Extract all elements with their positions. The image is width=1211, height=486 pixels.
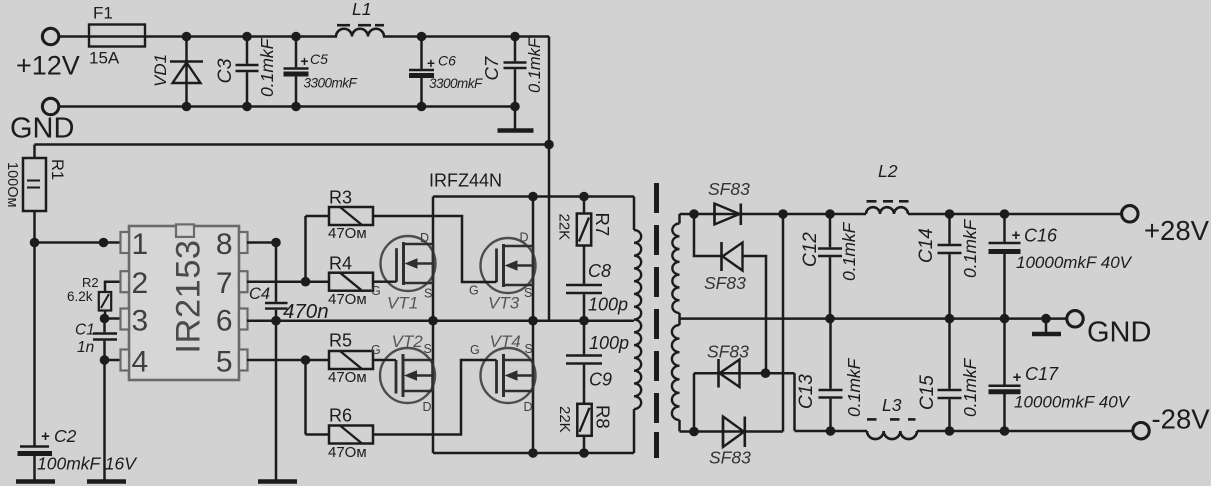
wire to R6 xyxy=(306,433,330,436)
wire R6 to VT4 gate xyxy=(373,360,484,435)
junction C7 bottom xyxy=(510,102,520,112)
wire to R5 xyxy=(306,359,330,362)
wire gate feed high xyxy=(304,216,307,282)
svg-text:C14: C14 xyxy=(916,228,937,263)
svg-text:L3: L3 xyxy=(882,395,902,415)
svg-text:3: 3 xyxy=(132,305,149,338)
ground pin4 xyxy=(87,479,126,484)
resistor R1 xyxy=(33,145,36,159)
wire R4 to VT1 gate xyxy=(373,280,382,283)
capacitor C3 xyxy=(246,37,249,64)
wire minus rectifier column xyxy=(782,214,785,432)
wire VT2 column xyxy=(432,321,435,453)
svg-text:0.1mkF: 0.1mkF xyxy=(257,37,277,97)
wire pin4 xyxy=(105,359,122,362)
junction C12 bottom xyxy=(825,314,835,324)
junction C17 bottom xyxy=(1000,426,1010,436)
svg-text:7: 7 xyxy=(216,267,233,300)
junction R7 top xyxy=(579,192,589,202)
ground under C7 xyxy=(514,107,517,130)
svg-text:C1: C1 xyxy=(75,322,95,339)
junction C5 top xyxy=(291,32,301,42)
transformer primary winding xyxy=(633,197,636,231)
transformer core xyxy=(654,183,659,213)
svg-text:100Ом: 100Ом xyxy=(4,162,20,207)
capacitor C5 xyxy=(295,37,298,68)
pin box left 2 xyxy=(121,271,130,292)
capacitor C4 xyxy=(275,243,278,302)
capacitor C1 xyxy=(103,319,106,333)
wire pin6 VS midline xyxy=(247,319,634,322)
terminal GND output xyxy=(1067,311,1083,327)
terminal -28V xyxy=(1133,423,1149,439)
wire pin2 to R2 xyxy=(105,282,121,292)
resistor R2 xyxy=(99,292,111,311)
transistor VT4 xyxy=(481,348,536,403)
pin box right 5 xyxy=(239,350,248,371)
junction feed xyxy=(544,140,554,150)
svg-text:GND: GND xyxy=(1087,317,1151,349)
junction VD1 top xyxy=(182,32,192,42)
diode SF83 D4 xyxy=(722,417,725,448)
wire pin1 xyxy=(35,241,122,244)
junction pin7 gate feed xyxy=(301,277,311,287)
svg-text:0.1mkF: 0.1mkF xyxy=(839,221,859,281)
wire GND rail xyxy=(59,105,515,108)
svg-text:D: D xyxy=(420,231,429,245)
svg-text:+: + xyxy=(427,56,435,71)
svg-text:C16: C16 xyxy=(1024,226,1058,246)
svg-text:R8: R8 xyxy=(593,405,614,429)
junction VT3 VT4 sources xyxy=(528,316,538,326)
wire R3 to VT3 gate xyxy=(373,216,486,282)
svg-text:SF83: SF83 xyxy=(704,273,746,293)
svg-text:22K: 22K xyxy=(556,406,573,433)
inductor L3 xyxy=(867,431,917,439)
svg-text:10000mkF 40V: 10000mkF 40V xyxy=(1014,393,1131,412)
svg-text:C15: C15 xyxy=(917,375,938,410)
wire +12V feed to R1 xyxy=(35,143,550,146)
wire bridge top rail xyxy=(433,195,634,198)
capacitor C6 xyxy=(420,37,423,69)
svg-text:S: S xyxy=(525,342,533,356)
junction C13 bottom xyxy=(826,426,836,436)
transistor VT1 xyxy=(381,236,436,291)
fuse F1 xyxy=(89,25,145,47)
junction stray pin1 row xyxy=(99,238,109,248)
svg-text:-28V: -28V xyxy=(1152,404,1211,435)
svg-text:1n: 1n xyxy=(77,339,94,356)
pin box right 8 xyxy=(239,232,248,253)
resistor R6 xyxy=(329,426,373,444)
capacitor C15 xyxy=(948,319,951,389)
svg-text:4: 4 xyxy=(132,346,149,379)
svg-text:IR2153: IR2153 xyxy=(170,239,208,353)
svg-text:47Ом: 47Ом xyxy=(328,225,367,242)
pin box left 4 xyxy=(121,350,130,371)
svg-text:G: G xyxy=(371,343,381,357)
junction C1 pin4 xyxy=(100,355,110,365)
svg-text:C3: C3 xyxy=(214,58,236,83)
wire +28V rail xyxy=(680,213,867,216)
wire R1 to C2 xyxy=(33,211,36,446)
wire diode D2 branch xyxy=(694,214,721,256)
junction VD1 bottom xyxy=(182,102,192,112)
capacitor C8 xyxy=(566,284,602,287)
svg-text:0.1mkF: 0.1mkF xyxy=(526,37,544,93)
svg-text:L2: L2 xyxy=(878,161,898,181)
svg-text:L1: L1 xyxy=(352,0,371,19)
svg-text:VT3: VT3 xyxy=(488,294,520,313)
svg-text:GND: GND xyxy=(10,113,74,145)
svg-text:1: 1 xyxy=(132,228,149,261)
svg-text:SF83: SF83 xyxy=(708,179,750,199)
svg-text:F1: F1 xyxy=(93,4,113,23)
junction R2 C1 xyxy=(100,314,110,324)
svg-text:+28V: +28V xyxy=(1144,215,1210,246)
svg-text:C4: C4 xyxy=(249,285,270,303)
wire D3 cathode down xyxy=(693,373,696,431)
svg-text:6.2k: 6.2k xyxy=(67,289,93,304)
junction C14 C15 xyxy=(945,314,955,324)
junction C7 top xyxy=(510,32,520,42)
resistor R5 xyxy=(329,351,373,369)
terminal +28V xyxy=(1122,206,1138,222)
wire D2 anode down xyxy=(743,256,767,373)
svg-text:VD1: VD1 xyxy=(151,54,170,87)
wire R5 to VT2 gate xyxy=(373,359,382,362)
ground output xyxy=(1041,314,1051,324)
svg-text:6: 6 xyxy=(216,305,233,338)
junction C5 bottom xyxy=(291,102,301,112)
junction rail x783 xyxy=(778,209,788,219)
capacitor C17 xyxy=(1003,319,1006,385)
capacitor C2 xyxy=(20,445,49,448)
wire pin8 xyxy=(247,241,276,244)
svg-text:SF83: SF83 xyxy=(707,342,749,362)
junction C6 top xyxy=(417,32,427,42)
svg-text:R5: R5 xyxy=(329,331,352,351)
svg-text:+: + xyxy=(41,428,50,445)
resistor R8 xyxy=(577,404,591,436)
svg-text:0.1mkF: 0.1mkF xyxy=(960,357,980,417)
inductor L1 xyxy=(337,32,383,41)
wire +12V feed down xyxy=(548,37,551,321)
junction pin5 gate feed xyxy=(301,355,311,365)
svg-text:47Ом: 47Ом xyxy=(328,444,367,461)
wire pin5 xyxy=(247,359,306,362)
wire -28V rail left segment xyxy=(680,430,784,433)
svg-text:R2: R2 xyxy=(82,275,99,290)
wire to R3 xyxy=(306,215,330,218)
wire VT4 column xyxy=(532,321,535,453)
wire to R4 xyxy=(306,280,330,283)
junction C12 top xyxy=(825,209,835,219)
svg-text:100mkF 16V: 100mkF 16V xyxy=(37,454,138,474)
svg-text:D: D xyxy=(423,400,432,414)
terminal GND input xyxy=(42,98,58,114)
ground pin6 xyxy=(258,479,297,484)
svg-text:C17: C17 xyxy=(1025,364,1059,384)
capacitor C9 xyxy=(583,321,586,355)
svg-text:C9: C9 xyxy=(589,370,612,390)
capacitor C14 xyxy=(948,214,951,244)
svg-text:VT2: VT2 xyxy=(392,332,424,351)
wire VT3 drain-source column xyxy=(532,197,535,321)
wire diode row 373 xyxy=(694,372,795,375)
junction VT3 drain xyxy=(528,192,538,202)
transistor VT3 xyxy=(481,238,536,293)
wire -28V rail right segment xyxy=(795,430,868,433)
svg-text:G: G xyxy=(371,284,381,298)
junction C16 C17 xyxy=(1000,314,1010,324)
svg-text:C6: C6 xyxy=(438,53,456,69)
transformer secondary upper winding xyxy=(678,214,681,224)
capacitor C7 xyxy=(514,37,517,62)
diode SF83 D1 xyxy=(713,204,716,225)
junction R8 bottom xyxy=(579,448,589,458)
svg-text:0.1mkF: 0.1mkF xyxy=(844,357,864,417)
svg-text:G: G xyxy=(470,343,480,357)
svg-text:+: + xyxy=(301,54,309,69)
wire GND mid rail xyxy=(680,317,1067,320)
diode VD1 xyxy=(185,37,188,107)
resistor R7 xyxy=(583,197,586,214)
svg-text:100p: 100p xyxy=(588,295,628,315)
transistor VT2 xyxy=(380,348,435,403)
svg-text:R3: R3 xyxy=(329,188,352,208)
wire pin7 xyxy=(247,280,306,283)
svg-text:C2: C2 xyxy=(54,426,77,446)
junction C4 pin6 xyxy=(271,316,281,326)
capacitor C16 xyxy=(1003,214,1006,242)
svg-text:D: D xyxy=(520,231,529,245)
diode SF83 D2 xyxy=(720,242,723,271)
resistor R4 xyxy=(329,273,373,291)
svg-text:D: D xyxy=(524,400,533,414)
svg-text:C8: C8 xyxy=(588,261,611,281)
inductor L2 xyxy=(866,207,908,214)
svg-text:R1: R1 xyxy=(48,159,66,180)
junction VT4 drain xyxy=(528,448,538,458)
svg-text:10000mkF 40V: 10000mkF 40V xyxy=(1016,253,1133,272)
svg-text:15A: 15A xyxy=(89,49,120,68)
svg-text:G: G xyxy=(469,284,479,298)
transformer secondary lower winding xyxy=(678,319,681,325)
wire gate feed low xyxy=(304,360,307,435)
junction C6 bottom xyxy=(417,102,427,112)
capacitor C13 xyxy=(829,319,832,389)
svg-text:2: 2 xyxy=(132,267,149,300)
junction secondary top xyxy=(689,209,699,219)
junction C3 top xyxy=(242,32,252,42)
wire VT1 drain-source column xyxy=(432,197,435,321)
svg-text:S: S xyxy=(424,287,432,301)
svg-text:+: + xyxy=(1012,227,1021,244)
wire pin3 xyxy=(105,317,122,320)
junction secondary bottom xyxy=(689,427,699,437)
svg-text:C5: C5 xyxy=(310,51,328,67)
svg-text:C12: C12 xyxy=(800,232,821,267)
wire C4 to ground xyxy=(275,321,278,480)
svg-text:R7: R7 xyxy=(592,213,613,237)
svg-text:SF83: SF83 xyxy=(709,448,751,468)
svg-text:S: S xyxy=(424,342,432,356)
op-amp U1 IR2153 body xyxy=(129,226,239,380)
svg-text:3300mkF: 3300mkF xyxy=(304,76,358,91)
svg-text:C7: C7 xyxy=(481,56,502,80)
pin box left 1 xyxy=(121,232,130,253)
svg-text:S: S xyxy=(524,286,532,300)
junction snubber mid xyxy=(579,316,589,326)
junction C3 bottom xyxy=(242,102,252,112)
svg-text:8: 8 xyxy=(216,228,233,261)
junction C16 top xyxy=(1000,209,1010,219)
svg-text:VT4: VT4 xyxy=(490,332,521,351)
wire bridge bottom rail xyxy=(433,452,634,455)
junction C15 bottom xyxy=(945,426,955,436)
capacitor C12 xyxy=(829,214,832,247)
resistor R3 xyxy=(329,207,373,225)
junction R1 pin1 xyxy=(30,238,40,248)
svg-text:C13: C13 xyxy=(796,374,817,409)
svg-text:47Ом: 47Ом xyxy=(328,369,367,386)
pin box right 7 xyxy=(239,271,248,292)
svg-text:0.1mkF: 0.1mkF xyxy=(960,218,980,278)
wire pin4 to ground xyxy=(103,360,106,480)
svg-text:VT1: VT1 xyxy=(387,294,418,313)
wire row373 to -28 rail xyxy=(793,373,796,431)
svg-text:3300mkF: 3300mkF xyxy=(429,76,483,91)
pin box left 3 xyxy=(121,309,130,330)
svg-text:R6: R6 xyxy=(329,406,352,426)
junction C14 top xyxy=(945,209,955,219)
svg-text:R4: R4 xyxy=(329,254,352,274)
junction D2 D3 anodes xyxy=(761,368,771,378)
pin box right 6 xyxy=(239,309,248,330)
wire +12V rail xyxy=(59,35,549,38)
svg-text:+: + xyxy=(1013,369,1022,386)
svg-text:22K: 22K xyxy=(556,214,573,241)
ground C2 xyxy=(16,479,55,484)
svg-text:+12V: +12V xyxy=(16,51,80,81)
junction pin8 C4 xyxy=(271,238,281,248)
svg-text:IRFZ44N: IRFZ44N xyxy=(429,171,502,191)
svg-text:100p: 100p xyxy=(589,333,629,353)
IC notch xyxy=(176,224,194,237)
diode SF83 D3 xyxy=(717,359,720,388)
junction VT1 VT2 sources xyxy=(428,316,438,326)
svg-text:47Ом: 47Ом xyxy=(328,291,367,308)
terminal +12V xyxy=(42,28,58,44)
svg-text:5: 5 xyxy=(216,346,233,379)
